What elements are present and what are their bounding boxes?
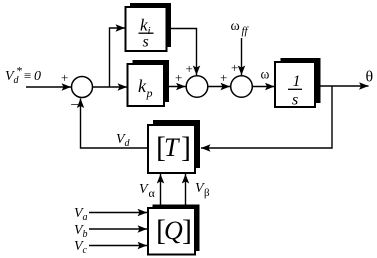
- wire Vc into Q: [89, 245, 147, 247]
- svg-text:s: s: [143, 34, 149, 51]
- svg-text:*: *: [17, 64, 23, 78]
- block 1/s integrator: [275, 58, 321, 109]
- wire T output Vd back to S1: [81, 99, 149, 149]
- svg-text:b: b: [83, 229, 88, 240]
- svg-text:]: ]: [182, 214, 192, 247]
- summing junction S3: [231, 76, 253, 98]
- svg-text:0: 0: [34, 69, 41, 84]
- wire ki to S2 (down): [167, 29, 197, 76]
- wire S3 to 1/s: [253, 86, 275, 88]
- svg-text:−: −: [71, 98, 79, 114]
- svg-text:V: V: [139, 182, 149, 197]
- block kp: [128, 60, 170, 106]
- wire S1 to kp: [93, 86, 128, 88]
- block ki/s: [126, 3, 172, 51]
- summing junction S1: [72, 77, 93, 98]
- svg-text:+: +: [61, 70, 68, 85]
- block T transform: [148, 120, 200, 173]
- svg-text:+: +: [220, 70, 227, 85]
- svg-text:+: +: [186, 61, 193, 76]
- svg-text:1: 1: [293, 73, 301, 90]
- wire Va into Q: [89, 212, 147, 214]
- svg-text:T: T: [164, 133, 180, 162]
- wire branch up to ki: [110, 28, 126, 87]
- svg-text:α: α: [149, 186, 156, 200]
- wire 1/s to theta output: [315, 85, 369, 87]
- wire feedback from output down to T: [201, 86, 332, 148]
- block Q transform: [148, 205, 200, 255]
- svg-text:a: a: [83, 212, 88, 223]
- wire Q to T beta: [185, 174, 187, 208]
- wire omega_ff into S3: [241, 38, 243, 75]
- svg-text:ω: ω: [231, 19, 240, 34]
- wire input to summing junction S1: [26, 86, 71, 88]
- svg-text:p: p: [146, 86, 153, 100]
- svg-text:β: β: [204, 187, 210, 199]
- svg-text:+: +: [231, 60, 238, 75]
- svg-text:+: +: [175, 70, 182, 85]
- svg-text:Q: Q: [164, 216, 183, 245]
- svg-text:θ: θ: [366, 69, 374, 86]
- wire Q to T alpha: [160, 174, 162, 208]
- svg-text:ff: ff: [242, 25, 250, 37]
- wire S2 to S3: [208, 86, 230, 88]
- wire Vb into Q: [89, 228, 147, 230]
- wire kp to S2: [164, 86, 186, 88]
- svg-text:s: s: [292, 92, 298, 109]
- svg-text:]: ]: [181, 131, 191, 164]
- svg-text:ω: ω: [261, 67, 270, 82]
- svg-text:c: c: [83, 245, 88, 256]
- svg-text:≡: ≡: [24, 68, 31, 83]
- summing junction S2: [186, 76, 208, 98]
